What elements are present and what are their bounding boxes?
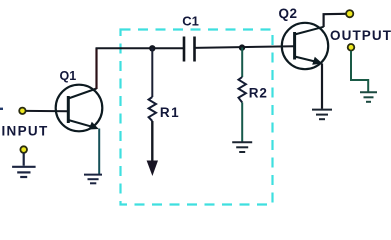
svg-text:C1: C1 <box>182 14 199 29</box>
wire Q1 collector up <box>95 48 97 89</box>
input terminal <box>19 108 25 114</box>
capacitor C1 <box>184 37 195 62</box>
ground (Q1 emitter) <box>84 175 102 184</box>
ground (input) <box>12 167 35 177</box>
coupling network boundary (dashed box) <box>121 30 273 205</box>
resistor R2 <box>239 77 246 103</box>
wire Q2 collector to output terminal <box>324 14 346 27</box>
svg-text:INPUT: INPUT <box>2 124 49 139</box>
svg-text:OUTPUT: OUTPUT <box>330 28 391 43</box>
node junction R2 <box>239 44 245 50</box>
wire Q1 emitter down <box>98 129 100 175</box>
wire junction down to R1 <box>151 48 153 97</box>
wire input to Q1 base <box>26 110 69 112</box>
wire R2 down to ground <box>241 103 243 142</box>
input ground terminal <box>20 146 27 153</box>
wire junction down to R2 <box>241 48 243 78</box>
svg-text:Q1: Q1 <box>60 69 77 83</box>
node junction R1 <box>149 45 155 51</box>
transistor Q2 <box>282 23 328 69</box>
svg-text:R2: R2 <box>249 86 268 101</box>
svg-text:R1: R1 <box>160 105 180 120</box>
wire input ground terminal stem <box>23 153 25 166</box>
wire output ground terminal to ground <box>351 51 368 92</box>
wire Q2 emitter down <box>321 64 323 109</box>
ground (R2) <box>232 142 252 152</box>
ground (output) <box>360 92 377 102</box>
scan speck at left edge <box>0 108 3 110</box>
output terminal <box>346 10 353 17</box>
ground (Q2 emitter) <box>312 110 332 120</box>
output ground terminal <box>348 44 355 51</box>
resistor R1 <box>149 97 156 121</box>
svg-text:Q2: Q2 <box>279 6 298 21</box>
transistor Q1 <box>56 85 103 132</box>
wire C1 to Q2 base <box>195 46 295 48</box>
wire main horizontal (collector node to C1) <box>96 47 184 49</box>
wire R1 down to arrow <box>151 121 153 161</box>
arrow to negative supply <box>147 161 158 177</box>
